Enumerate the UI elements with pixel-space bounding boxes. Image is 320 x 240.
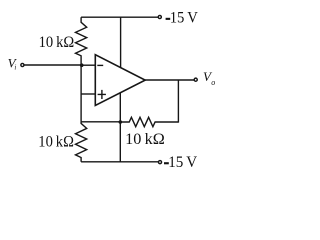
node dot feedback junction	[119, 120, 123, 124]
op-amp minus sign	[97, 64, 103, 66]
op-amp U1 triangle	[95, 55, 145, 106]
resistor R1 10 kOhm (top, vertical)	[76, 17, 87, 65]
wire output	[145, 79, 194, 81]
wire stub to inverting input	[81, 64, 95, 66]
wire bottom rail to -15V terminal	[81, 161, 158, 163]
svg-text:10 kΩ: 10 kΩ	[125, 131, 165, 148]
wire top rail to -15V terminal	[81, 16, 158, 18]
resistor R3 10 kOhm (bottom-left, vertical)	[76, 122, 87, 162]
resistor R2 10 kOhm (feedback, horizontal)	[120, 117, 178, 126]
svg-text:10 kΩ: 10 kΩ	[38, 134, 74, 151]
wire stub to noninverting input	[81, 93, 95, 95]
node dot input junction	[80, 63, 84, 67]
wire top supply pin	[120, 17, 122, 67]
wire vertical input bus	[80, 65, 82, 122]
terminal -15V bottom	[158, 161, 161, 164]
terminal Vo	[194, 78, 197, 81]
wire Vi input	[24, 64, 81, 66]
op-amp plus sign	[98, 90, 106, 99]
svg-text:10 kΩ: 10 kΩ	[39, 34, 75, 51]
wire lower node horizontal	[81, 121, 120, 123]
svg-text:15 V: 15 V	[168, 154, 197, 171]
wire bottom supply pin	[119, 93, 121, 162]
label -15 V top minus bar	[166, 18, 171, 20]
svg-text:15 V: 15 V	[170, 10, 199, 27]
wire feedback up to output	[177, 80, 179, 123]
label -15 V bottom minus bar	[164, 162, 169, 164]
terminal Vi	[21, 63, 24, 66]
terminal -15V top	[158, 15, 161, 18]
